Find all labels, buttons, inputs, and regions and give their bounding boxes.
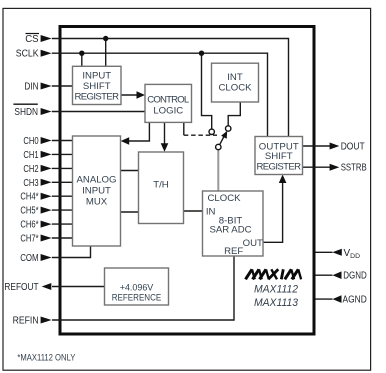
svg-text:CH7*: CH7*: [20, 234, 38, 245]
svg-text:REGISTER: REGISTER: [75, 91, 120, 102]
wire CH2: [52, 167, 73, 169]
svg-text:IN: IN: [206, 207, 216, 218]
svg-text:SAR ADC: SAR ADC: [209, 225, 251, 236]
wire T/H to ADC IN: [184, 210, 203, 212]
wire CS drop to input shift register: [105, 39, 107, 67]
svg-text:INPUT: INPUT: [82, 185, 111, 196]
svg-text:CH5*: CH5*: [20, 206, 38, 217]
svg-text:OUT: OUT: [243, 238, 263, 249]
wire dashed switch control from control logic: [183, 122, 185, 135]
svg-text:INPUT: INPUT: [82, 71, 111, 82]
pin VDD arrow in: [332, 249, 342, 256]
wire COM into mux bottom: [52, 246, 91, 258]
main IC box: [60, 27, 314, 335]
switch pole circle: [216, 144, 221, 149]
pin DOUT arrow out: [330, 143, 340, 150]
svg-text:MAX1113: MAX1113: [254, 297, 298, 309]
svg-text:SHIFT: SHIFT: [83, 81, 111, 92]
control logic block: [145, 84, 192, 122]
wire mux to T/H lower: [121, 211, 139, 213]
wire ADC OUT up to output shift register with arrow: [263, 178, 283, 242]
svg-text:*MAX1112 ONLY: *MAX1112 ONLY: [17, 353, 75, 363]
8-bit SAR ADC block: [203, 191, 264, 256]
svg-text:CH0: CH0: [23, 136, 39, 147]
analog input mux block: [73, 136, 121, 246]
svg-text:SCLK: SCLK: [16, 49, 39, 60]
switch arm arrow from pole to INT CLOCK contact: [220, 136, 225, 145]
svg-text:SSTRB: SSTRB: [341, 163, 367, 174]
wire DIN into input shift register: [52, 85, 73, 87]
wire DGND: [316, 274, 333, 276]
pin DGND arrow in: [333, 271, 342, 279]
svg-text:T/H: T/H: [153, 180, 169, 191]
wire SSTRB: [303, 166, 331, 168]
svg-text:LOGIC: LOGIC: [153, 106, 183, 117]
pin AGND arrow in: [333, 295, 342, 303]
svg-text:DOUT: DOUT: [341, 142, 365, 153]
junction dot on SCLK line at x=81.8: [79, 51, 84, 56]
svg-text:REFOUT: REFOUT: [4, 282, 38, 293]
wire CH6: [52, 223, 73, 225]
svg-text:CS: CS: [25, 34, 39, 45]
wire CS horizontal+down to output shift register: [52, 39, 289, 137]
wire control logic to analog input mux with arrow: [125, 122, 149, 141]
svg-text:REFIN: REFIN: [13, 316, 39, 327]
wire SHDN into control logic: [52, 111, 145, 113]
svg-text:INT: INT: [227, 72, 243, 83]
T/H block: [139, 152, 184, 224]
junction dot on CS line: [103, 36, 108, 41]
wire mux to T/H upper: [121, 170, 139, 172]
svg-text:CH3: CH3: [23, 178, 39, 189]
svg-text:REGISTER: REGISTER: [257, 161, 302, 172]
svg-text:CH6*: CH6*: [20, 220, 38, 231]
wire DOUT: [303, 145, 331, 147]
svg-text:MUX: MUX: [86, 196, 108, 207]
wire from INT CLOCK bottom to switch right contact: [228, 102, 240, 126]
wire control logic to T/H with arrow: [164, 122, 166, 147]
switch contact circle left (external clock): [209, 129, 214, 134]
svg-text:COM: COM: [20, 253, 38, 264]
wire CH5: [52, 209, 73, 211]
svg-text:CLOCK: CLOCK: [218, 83, 252, 94]
svg-text:REF: REF: [224, 246, 243, 257]
svg-text:CH4*: CH4*: [20, 192, 38, 203]
wire CH1: [52, 153, 73, 155]
switch contact circle right (internal clock): [226, 126, 231, 131]
wire CH3: [52, 181, 73, 183]
MAXIM logo: [246, 269, 302, 279]
svg-text:DGND: DGND: [343, 271, 367, 282]
svg-text:CH2: CH2: [23, 164, 39, 175]
svg-text:REFERENCE: REFERENCE: [112, 292, 162, 303]
input shift register U1: [73, 66, 122, 104]
wire SCLK horizontal+down to output shift register: [52, 53, 268, 136]
wire gray clock line from switch pole to ADC: [217, 150, 219, 191]
output shift register: [255, 137, 303, 175]
svg-text:AGND: AGND: [343, 295, 367, 306]
+4.096V reference block: [105, 268, 169, 305]
svg-text:CONTROL: CONTROL: [147, 95, 190, 106]
svg-text:ANALOG: ANALOG: [77, 174, 117, 185]
junction dot on SCLK line at x=201.5: [199, 51, 204, 56]
wire REFOUT from reference box: [52, 286, 105, 288]
int clock block: [212, 63, 259, 102]
wire CH0: [52, 140, 73, 142]
wire REF vertical and REFIN horizontal: [52, 256, 234, 320]
wire AGND: [316, 298, 333, 300]
wire external clock branch from SCLK to switch left contact: [202, 53, 212, 129]
wire SCLK drop to input shift register: [81, 53, 83, 66]
wire CH4: [52, 195, 73, 197]
pin SSTRB arrow out: [330, 164, 340, 171]
svg-text:DIN: DIN: [24, 82, 38, 93]
wire input shift register to control logic with arrow: [121, 94, 141, 96]
svg-text:CH1: CH1: [23, 150, 39, 161]
svg-text:MAX1112: MAX1112: [254, 283, 298, 295]
wire CH7: [52, 237, 73, 239]
svg-text:SHDN: SHDN: [14, 107, 38, 118]
svg-text:CLOCK: CLOCK: [207, 193, 241, 204]
wire VDD: [316, 251, 333, 253]
